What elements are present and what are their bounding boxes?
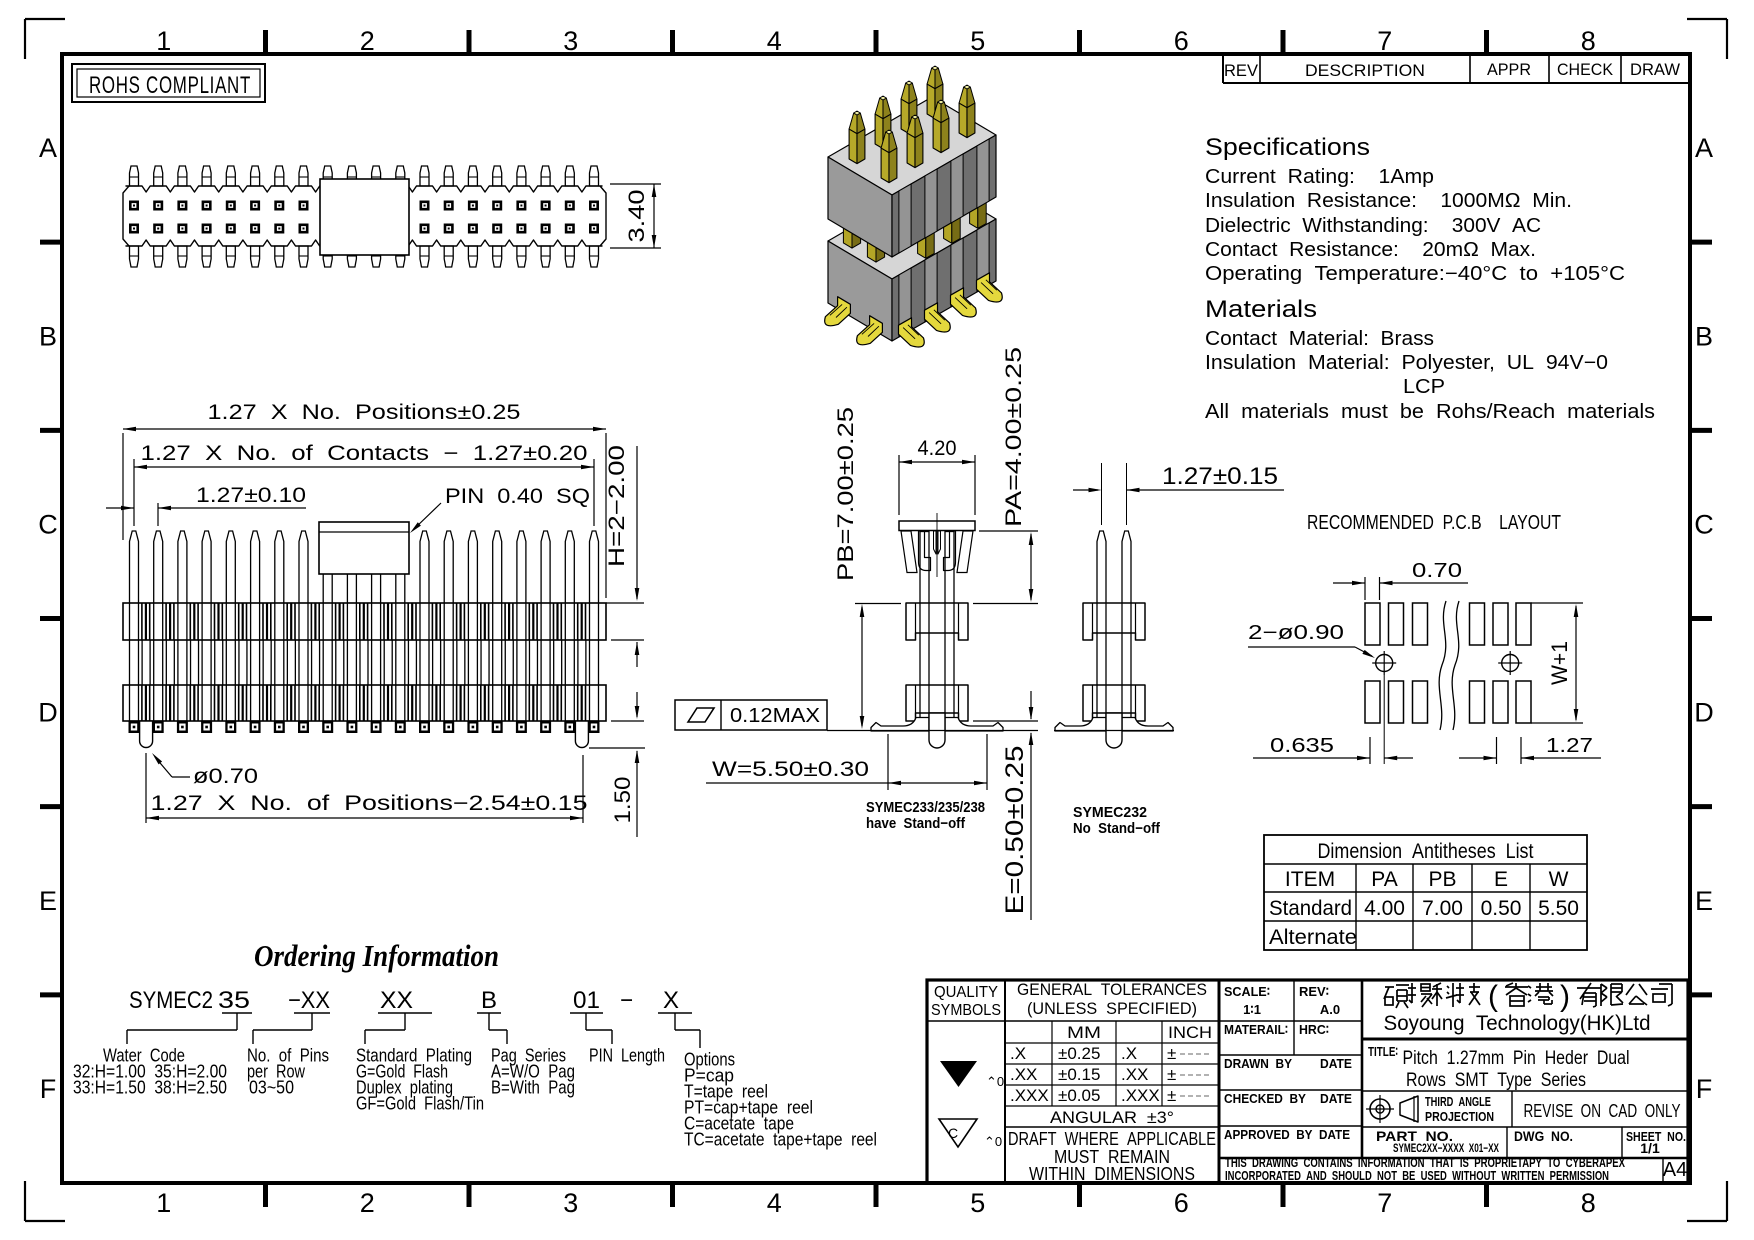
svg-text:Contact Material: Brass: Contact Material: Brass (1205, 328, 1434, 350)
svg-text:ø0.70: ø0.70 (193, 765, 258, 788)
svg-text:Insulation Resistance: 100: Insulation Resistance: 1000MΩ Min. (1205, 190, 1572, 212)
svg-text:⌃0: ⌃0 (986, 1074, 1004, 1089)
svg-text:SYMEC2XX−XXXX X01−XX: SYMEC2XX−XXXX X01−XX (1393, 1141, 1499, 1155)
svg-text:Insulation Material: Polyest: Insulation Material: Polyester, UL 94V−0 (1205, 352, 1608, 374)
svg-text:DATE: DATE (1320, 1056, 1352, 1071)
svg-text:1∶1: 1∶1 (1243, 1002, 1261, 1017)
svg-text:7.00: 7.00 (1422, 897, 1463, 920)
svg-text:MATERAIL∶: MATERAIL∶ (1224, 1022, 1288, 1037)
svg-text:D: D (1694, 698, 1714, 728)
svg-text:WITHIN DIMENSIONS: WITHIN DIMENSIONS (1029, 1164, 1195, 1184)
svg-text:B: B (39, 321, 57, 351)
svg-text:.XX: .XX (1121, 1065, 1148, 1084)
svg-text:H=2−2.00: H=2−2.00 (604, 445, 629, 567)
svg-text:3: 3 (563, 1188, 578, 1218)
svg-text:01: 01 (573, 987, 600, 1014)
svg-text:Alternate: Alternate (1269, 926, 1357, 949)
svg-text:8: 8 (1581, 1188, 1596, 1218)
svg-text:2−ø0.90: 2−ø0.90 (1248, 622, 1344, 644)
svg-text:SYMEC232: SYMEC232 (1073, 804, 1147, 821)
svg-text:MM: MM (1067, 1023, 1101, 1042)
svg-text:SYMEC233/235/238: SYMEC233/235/238 (866, 799, 985, 816)
svg-text:Current Rating: 1Amp: Current Rating: 1Amp (1205, 166, 1434, 188)
svg-text:4: 4 (767, 26, 782, 56)
svg-text:C: C (1694, 509, 1714, 539)
svg-text:1/1: 1/1 (1640, 1140, 1660, 1156)
svg-text:(UNLESS SPECIFIED): (UNLESS SPECIFIED) (1027, 999, 1197, 1018)
svg-text:PIN Length: PIN Length (589, 1045, 665, 1066)
svg-text:D: D (38, 698, 58, 728)
svg-text:DRAW: DRAW (1630, 60, 1680, 79)
svg-text:B=With Pag: B=With Pag (491, 1077, 575, 1098)
svg-text:DESCRIPTION: DESCRIPTION (1305, 61, 1425, 80)
svg-text:1.27±0.15: 1.27±0.15 (1162, 463, 1278, 490)
svg-text:1: 1 (156, 1188, 171, 1218)
svg-text:PA: PA (1371, 868, 1397, 891)
svg-text:03~50: 03~50 (249, 1077, 294, 1098)
svg-text:ANGULAR ±3°: ANGULAR ±3° (1050, 1108, 1174, 1127)
svg-text:TC=acetate tape+tape reel: TC=acetate tape+tape reel (684, 1129, 877, 1150)
svg-text:PB=7.00±0.25: PB=7.00±0.25 (833, 407, 858, 581)
svg-text:3.40: 3.40 (624, 190, 649, 243)
svg-text:DRAFT WHERE APPLICABLE: DRAFT WHERE APPLICABLE (1008, 1129, 1216, 1149)
svg-text:1.27 X No. of Contacts −: 1.27 X No. of Contacts − 1.27±0.20 (141, 442, 588, 465)
svg-text:): ) (1560, 980, 1570, 1013)
svg-text:GENERAL TOLERANCES: GENERAL TOLERANCES (1017, 980, 1207, 999)
svg-text:APPROVED BY DATE: APPROVED BY DATE (1224, 1127, 1350, 1142)
svg-text:Operating Temperature:−40°C: Operating Temperature:−40°C to +105°C (1205, 263, 1625, 285)
svg-text:INCH: INCH (1168, 1023, 1212, 1042)
svg-text:THIRD ANGLE: THIRD ANGLE (1425, 1094, 1491, 1109)
svg-text:.XXX: .XXX (1121, 1086, 1160, 1105)
svg-text:REV∶: REV∶ (1299, 984, 1329, 999)
svg-text:E: E (1494, 868, 1508, 891)
svg-text:Specifications: Specifications (1205, 134, 1370, 161)
svg-text:2: 2 (360, 26, 375, 56)
svg-text:.X: .X (1010, 1044, 1026, 1063)
svg-text:0.50: 0.50 (1481, 897, 1522, 920)
svg-text:±: ± (1167, 1044, 1176, 1063)
svg-text:0.635: 0.635 (1270, 735, 1334, 757)
svg-text:.XX: .XX (1010, 1065, 1037, 1084)
svg-text:±0.25: ±0.25 (1058, 1044, 1100, 1063)
svg-text:7: 7 (1377, 26, 1392, 56)
svg-text:B: B (481, 987, 497, 1014)
svg-text:Contact Resistance: 20mΩ: Contact Resistance: 20mΩ Max. (1205, 239, 1536, 261)
svg-text:B: B (1695, 321, 1713, 351)
svg-text:5.50: 5.50 (1538, 897, 1579, 920)
svg-text:CHECKED BY: CHECKED BY (1224, 1091, 1306, 1106)
svg-text:PB: PB (1428, 868, 1456, 891)
svg-text:±: ± (1167, 1086, 1176, 1105)
svg-text:A: A (39, 133, 57, 163)
svg-text:REV: REV (1224, 61, 1259, 80)
svg-text:1.50: 1.50 (610, 777, 635, 824)
svg-text:REVISE ON CAD ONLY: REVISE ON CAD ONLY (1524, 1101, 1681, 1121)
svg-text:±: ± (1167, 1065, 1176, 1084)
svg-text:Dielectric Withstanding: 3: Dielectric Withstanding: 300V AC (1205, 215, 1541, 237)
svg-text:−: − (620, 987, 633, 1014)
svg-text:PA=4.00±0.25: PA=4.00±0.25 (1001, 347, 1026, 527)
svg-text:33:H=1.50 38:H=2.50: 33:H=1.50 38:H=2.50 (73, 1077, 227, 1098)
svg-text:35: 35 (218, 987, 250, 1014)
svg-text:0.12MAX: 0.12MAX (730, 705, 820, 727)
svg-text:SYMBOLS: SYMBOLS (931, 1002, 1001, 1019)
svg-text:E: E (1695, 886, 1713, 916)
svg-text:SCALE∶: SCALE∶ (1224, 984, 1270, 999)
svg-text:Soyoung Technology(HK)Ltd: Soyoung Technology(HK)Ltd (1384, 1012, 1651, 1035)
svg-text:1.27±0.10: 1.27±0.10 (196, 484, 306, 507)
svg-text:CHECK: CHECK (1557, 60, 1614, 79)
svg-text:DWG NO.: DWG NO. (1514, 1128, 1573, 1144)
svg-text:W+1: W+1 (1547, 641, 1572, 685)
svg-text:8: 8 (1581, 26, 1596, 56)
svg-text:INCORPORATED AND SHOULD NOT: INCORPORATED AND SHOULD NOT BE USED WITH… (1225, 1169, 1609, 1183)
svg-text:5: 5 (970, 1188, 985, 1218)
svg-text:.X: .X (1121, 1044, 1137, 1063)
svg-text:C: C (38, 509, 58, 539)
svg-text:E=0.50±0.25: E=0.50±0.25 (1001, 746, 1029, 915)
svg-text:6: 6 (1174, 26, 1189, 56)
svg-text:6: 6 (1174, 1188, 1189, 1218)
svg-text:⌃0: ⌃0 (984, 1134, 1002, 1149)
svg-text:1.27 X No. Positions±0.25: 1.27 X No. Positions±0.25 (208, 401, 521, 424)
svg-text:A.0: A.0 (1320, 1002, 1340, 1017)
svg-text:±0.15: ±0.15 (1058, 1065, 1100, 1084)
svg-text:5: 5 (970, 26, 985, 56)
svg-text:Dimension Antitheses List: Dimension Antitheses List (1318, 840, 1534, 863)
svg-text:0.70: 0.70 (1412, 560, 1462, 582)
svg-text:LCP: LCP (1403, 376, 1445, 398)
svg-text:Rows SMT Type Series: Rows SMT Type Series (1406, 1070, 1586, 1091)
svg-text:F: F (40, 1074, 57, 1104)
svg-text:1.27: 1.27 (1546, 735, 1593, 757)
svg-text:±0.05: ±0.05 (1058, 1086, 1100, 1105)
svg-text:W=5.50±0.30: W=5.50±0.30 (712, 758, 869, 781)
svg-text:A4: A4 (1663, 1159, 1687, 1181)
svg-text:ROHS COMPLIANT: ROHS COMPLIANT (89, 72, 251, 99)
svg-text:THIS DRAWING CONTAINS INFOR: THIS DRAWING CONTAINS INFORMATION THAT I… (1225, 1156, 1625, 1170)
svg-text:(: ( (1488, 980, 1498, 1013)
svg-text:have Stand−off: have Stand−off (866, 815, 966, 832)
svg-text:Standard: Standard (1269, 897, 1352, 920)
svg-text:Ordering Information: Ordering Information (254, 938, 499, 973)
svg-text:DATE: DATE (1320, 1091, 1352, 1106)
svg-text:A: A (1695, 133, 1713, 163)
svg-text:1: 1 (156, 26, 171, 56)
svg-text:DRAWN BY: DRAWN BY (1224, 1056, 1292, 1071)
svg-text:C: C (948, 1125, 958, 1141)
svg-text:PIN 0.40 SQ: PIN 0.40 SQ (445, 485, 590, 508)
svg-text:4.00: 4.00 (1364, 897, 1405, 920)
svg-text:2: 2 (360, 1188, 375, 1218)
svg-text:TITLE∶: TITLE∶ (1368, 1044, 1398, 1059)
svg-text:E: E (39, 886, 57, 916)
svg-text:XX: XX (380, 987, 413, 1014)
svg-text:GF=Gold Flash/Tin: GF=Gold Flash/Tin (356, 1093, 484, 1114)
svg-text:1.27 X No. of Positions−2.: 1.27 X No. of Positions−2.54±0.15 (151, 792, 588, 815)
svg-text:PROJECTION: PROJECTION (1425, 1109, 1494, 1124)
svg-text:APPR: APPR (1487, 60, 1531, 79)
svg-text:−XX: −XX (288, 987, 330, 1014)
svg-text:All materials must be Rohs: All materials must be Rohs/Reach materia… (1205, 401, 1655, 423)
svg-text:HRC∶: HRC∶ (1299, 1022, 1329, 1037)
svg-text:Materials: Materials (1205, 296, 1317, 323)
svg-text:SYMEC2: SYMEC2 (129, 987, 213, 1014)
svg-text:.XXX: .XXX (1010, 1086, 1049, 1105)
svg-text:3: 3 (563, 26, 578, 56)
svg-text:W: W (1549, 868, 1569, 891)
svg-text:No Stand−off: No Stand−off (1073, 820, 1161, 837)
svg-text:RECOMMENDED P.C.B LAYOUT: RECOMMENDED P.C.B LAYOUT (1307, 512, 1561, 534)
svg-text:7: 7 (1377, 1188, 1392, 1218)
svg-text:4: 4 (767, 1188, 782, 1218)
svg-text:QUALITY: QUALITY (934, 984, 998, 1001)
svg-text:X: X (663, 987, 679, 1014)
svg-text:ITEM: ITEM (1285, 868, 1335, 891)
svg-text:4.20: 4.20 (918, 437, 957, 460)
svg-text:Pitch 1.27mm Pin Heder Dua: Pitch 1.27mm Pin Heder Dual (1403, 1048, 1630, 1069)
svg-text:F: F (1696, 1074, 1713, 1104)
